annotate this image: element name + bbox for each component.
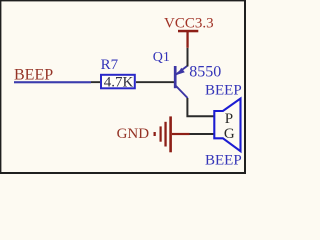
svg-text:BEEP: BEEP [14,66,53,83]
svg-text:P: P [225,111,233,127]
resistor R7 [91,75,148,89]
svg-text:BEEP: BEEP [205,152,242,168]
wire [14,81,91,83]
svg-text:G: G [224,126,235,142]
wire [148,81,175,83]
transistor Q1 [175,66,187,98]
wire [190,133,215,135]
svg-text:R7: R7 [101,57,119,73]
power VCC3.3 [178,30,198,48]
ground [154,116,190,152]
svg-text:8550: 8550 [189,64,221,81]
svg-text:BEEP: BEEP [205,83,242,99]
wire [187,98,214,116]
svg-text:4.7K: 4.7K [104,74,134,90]
svg-text:VCC3.3: VCC3.3 [164,15,214,31]
frame (decorative) [0,0,246,174]
speaker BEEP [214,99,240,152]
svg-text:GND: GND [117,126,150,142]
wire [187,48,189,67]
svg-text:Q1: Q1 [153,50,170,65]
